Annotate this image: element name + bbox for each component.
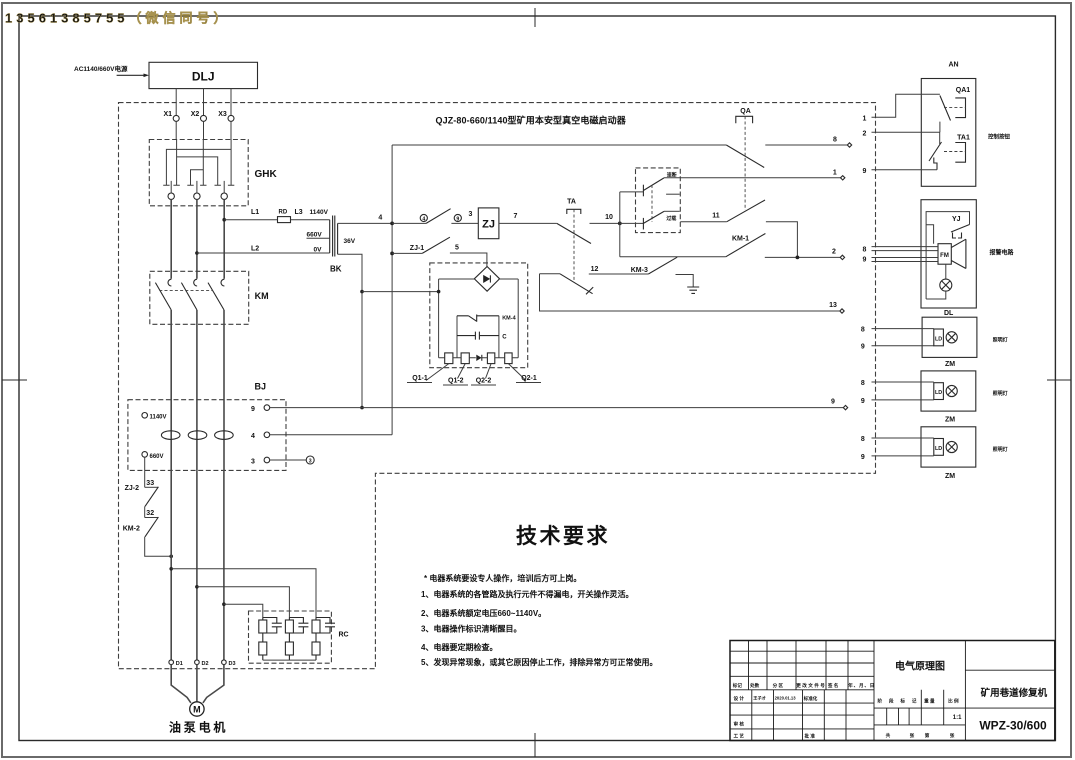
YJ internal loop (926, 212, 969, 299)
phase wire 3 KM to BJ (223, 310, 225, 471)
svg-text:4: 4 (378, 215, 382, 222)
phase wire 2 KM to BJ (196, 310, 198, 471)
RC column 2 (285, 618, 308, 661)
wire X3 to GHK (230, 121, 232, 139)
svg-text:X1: X1 (163, 111, 172, 118)
relay linkage dashed (651, 185, 653, 222)
protector BJ dashed box (128, 400, 286, 471)
centering tick right (1047, 379, 1071, 381)
terminal 8 diamond (847, 143, 851, 147)
node 10 junction (618, 222, 622, 226)
wire 12 (589, 273, 649, 275)
node 33 tick (145, 486, 159, 488)
RC tap 1 (169, 567, 173, 571)
svg-text:1、电器系统的各管路及执行元件不得漏电，开关操作灵活。: 1、电器系统的各管路及执行元件不得漏电，开关操作灵活。 (421, 589, 633, 599)
relay lower contact tick (642, 218, 644, 230)
svg-text:ZM: ZM (945, 361, 955, 368)
svg-text:D3: D3 (229, 661, 236, 667)
CT coil 3 (215, 431, 234, 440)
terminal 2 diamond (840, 255, 844, 259)
svg-text:9: 9 (863, 256, 867, 263)
KM-4 loop verticals (457, 316, 499, 358)
motor feed wires (171, 665, 191, 703)
svg-text:C: C (502, 335, 507, 341)
node L1 junction (222, 218, 226, 222)
rectifier left vertex wiring (439, 279, 475, 358)
svg-text:GHK: GHK (255, 169, 278, 180)
TA lower contact tick (586, 287, 593, 294)
svg-text:BK: BK (330, 265, 342, 274)
ZM2 wire core 8 (872, 437, 934, 439)
start button QA blade on wire 8 (726, 145, 764, 168)
terminal 1 diamond (841, 176, 845, 180)
svg-text:油泵电机: 油泵电机 (169, 720, 228, 735)
KM linkage dashed (159, 289, 212, 291)
terminal X1 (173, 115, 179, 121)
node 2 junction (796, 256, 800, 260)
wire secondary top to node 4 (338, 222, 393, 224)
svg-text:660V: 660V (150, 454, 164, 460)
drawing name cell (874, 641, 1055, 741)
terminal D3 (222, 660, 227, 665)
label Q1-2 with leader (458, 364, 466, 379)
svg-text:8: 8 (861, 380, 865, 387)
svg-text:9: 9 (861, 398, 865, 405)
wire 3 stub (270, 459, 307, 461)
capacitor C (457, 332, 499, 340)
svg-text:13: 13 (829, 302, 837, 309)
svg-text:L2: L2 (251, 246, 259, 253)
svg-text:RC: RC (339, 632, 349, 639)
coil terminal block Q2-2 (487, 353, 494, 364)
svg-text:D2: D2 (202, 661, 209, 667)
svg-text:报警电路: 报警电路 (990, 249, 1015, 257)
stage mark small cells (887, 708, 909, 725)
svg-text:审 核: 审 核 (734, 721, 745, 728)
ZM2 ballast LD (934, 439, 944, 456)
svg-text:M: M (193, 705, 201, 715)
rectifier right vertex wiring (500, 279, 519, 358)
svg-text:AN: AN (949, 62, 959, 69)
svg-text:1:1: 1:1 (953, 715, 962, 721)
lamp to loop bottom (926, 291, 946, 299)
svg-text:王子才: 王子才 (753, 695, 766, 702)
svg-text:12: 12 (591, 266, 599, 273)
DL wire core 8 (872, 328, 934, 330)
GHK moving blades (171, 181, 224, 193)
wire core 1 into AN (872, 94, 940, 117)
svg-text:过载: 过载 (666, 215, 676, 222)
svg-text:工 艺: 工 艺 (734, 733, 745, 740)
ZM1 ballast LD (934, 383, 944, 400)
GHK fixed contact ticks (163, 184, 234, 186)
relay middle stub (666, 193, 680, 195)
ground lead (676, 275, 694, 288)
DL ballast LD (934, 329, 944, 346)
RC tap 2 (195, 585, 199, 589)
terminal X3 (228, 115, 234, 121)
RC column 3 (312, 618, 335, 661)
relay lower blade (643, 211, 664, 223)
label Q1-1 with leader (426, 364, 449, 381)
svg-text:技术要求: 技术要求 (516, 525, 610, 548)
main control vertical bus (391, 145, 393, 435)
svg-text:KM-2: KM-2 (123, 526, 140, 533)
GHK crossover wire b (177, 157, 218, 185)
wire 8 top run (392, 144, 726, 146)
terminal D2 (195, 660, 200, 665)
svg-text:照明灯: 照明灯 (993, 390, 1008, 397)
svg-text:0V: 0V (314, 247, 323, 254)
svg-text:共: 共 (886, 732, 891, 739)
svg-text:9: 9 (861, 344, 865, 351)
svg-text:9: 9 (863, 168, 867, 175)
wire to relay ZJ (451, 222, 478, 224)
title block revision table lines (730, 651, 874, 729)
svg-text:标记: 标记 (732, 682, 743, 689)
svg-text:照明灯: 照明灯 (993, 337, 1008, 344)
svg-text:8: 8 (863, 246, 867, 253)
svg-text:ZJ-2: ZJ-2 (125, 485, 140, 492)
svg-text:KM-3: KM-3 (631, 267, 648, 274)
svg-text:13561385755（微信同号）: 13561385755（微信同号） (5, 11, 231, 26)
relay upper blade (643, 178, 664, 191)
horn cone (951, 239, 966, 268)
node 4 junction (390, 222, 394, 226)
switch blade 4 on control run (392, 222, 426, 224)
node L2 junction (195, 251, 199, 255)
svg-text:D1: D1 (176, 661, 183, 667)
AC supply feed wire with arrow (117, 74, 147, 76)
auxiliary contact KM-4 (457, 315, 499, 322)
circled node 3 (306, 456, 314, 464)
FM to lamp wire (945, 264, 947, 279)
svg-text:L1: L1 (251, 209, 259, 216)
svg-text:* 电器系统要设专人操作，培训后方可上岗。: * 电器系统要设专人操作，培训后方可上岗。 (424, 573, 581, 583)
ZM1 wire core 9 (872, 399, 934, 401)
svg-text:KM-1: KM-1 (732, 236, 749, 243)
phase wire 2 GHK to KM (196, 199, 198, 278)
wire X2 from DLJ (203, 89, 205, 116)
wire 2 to terminal (765, 256, 840, 258)
relay contact ZJ-1 (390, 252, 394, 256)
junction rectifier feed (360, 290, 364, 294)
svg-text:标准化: 标准化 (803, 695, 818, 702)
svg-text:DL: DL (944, 310, 954, 317)
svg-text:4、电器要定期检查。: 4、电器要定期检查。 (421, 642, 497, 652)
svg-text:KM: KM (255, 291, 269, 301)
contactor contact KM-1 wire (620, 256, 726, 258)
wire core 9 double line to FM (872, 258, 939, 262)
svg-text:WPZ-30/600: WPZ-30/600 (979, 719, 1047, 733)
RC column 1 (259, 618, 282, 661)
circled node 4 (420, 214, 427, 221)
CT coil 2 (188, 431, 207, 440)
svg-text:3: 3 (468, 211, 472, 218)
svg-text:660V: 660V (307, 232, 323, 239)
svg-text:ZJ: ZJ (482, 219, 495, 231)
svg-text:签 名: 签 名 (827, 682, 838, 689)
GHK crossover wire a (166, 149, 231, 185)
svg-text:2020.01.13: 2020.01.13 (775, 696, 797, 701)
svg-text:5: 5 (455, 245, 459, 252)
svg-text:Q2-1: Q2-1 (521, 375, 537, 382)
svg-text:11: 11 (712, 213, 720, 220)
KM pole 3 arc (221, 279, 224, 286)
motor M (190, 702, 204, 716)
svg-text:YJ: YJ (952, 216, 961, 223)
svg-text:张: 张 (950, 732, 955, 739)
svg-text:5、发现异常现象，或其它原因停止工作，排除异常方可正常使用。: 5、发现异常现象，或其它原因停止工作，排除异常方可正常使用。 (421, 657, 657, 667)
junction on wire 9 (360, 406, 364, 410)
circled node 9 (454, 214, 461, 221)
svg-text:2: 2 (863, 130, 867, 137)
svg-text:7: 7 (514, 213, 518, 220)
svg-text:批 准: 批 准 (805, 733, 816, 740)
wire 13 from TA lower (540, 274, 840, 311)
phase wire 1 GHK to KM (170, 199, 172, 278)
svg-text:设 计: 设 计 (734, 695, 745, 702)
svg-text:AC1140/660V电源: AC1140/660V电源 (74, 64, 128, 73)
wire X1 to GHK (175, 121, 177, 139)
svg-text:3: 3 (309, 458, 312, 464)
phase wire 3 BJ to D3 (223, 470, 225, 660)
phase wire 2 BJ to D2 (196, 470, 198, 660)
KM blade 2 (181, 283, 197, 310)
rectifier diode symbol (483, 275, 490, 283)
svg-text:重 量: 重 量 (924, 697, 935, 704)
terminal 13 diamond (840, 309, 844, 313)
contactor KM dashed box (150, 271, 249, 324)
svg-text:TA: TA (567, 199, 576, 206)
wire 11 output to node 2 (766, 222, 798, 258)
BJ terminal 3 (264, 457, 270, 463)
terminal 9 diamond (843, 405, 847, 409)
KM blade 3 (208, 283, 224, 310)
YJ step wire to FM (926, 225, 934, 244)
transformer BK primary (329, 220, 331, 253)
svg-text:矿用巷道修复机: 矿用巷道修复机 (981, 687, 1048, 699)
relay ZJ (478, 208, 499, 239)
DL lamp (946, 332, 957, 343)
svg-text:KM-4: KM-4 (502, 316, 516, 322)
stage mark row (921, 690, 943, 725)
svg-text:LD: LD (935, 390, 942, 396)
TA blade upper (wire7 to 10) (557, 223, 591, 243)
svg-text:LD: LD (935, 336, 942, 342)
alarm box YJ (921, 200, 976, 308)
wire X3 from DLJ (230, 89, 232, 116)
snubber RC dashed box (249, 611, 332, 663)
centering tick bottom (534, 733, 536, 757)
KM pole 2 arc (194, 279, 197, 286)
svg-text:电气原理图: 电气原理图 (895, 660, 945, 673)
QA blade on wire 11 (727, 200, 765, 222)
branch vertical at node 10 (619, 192, 621, 257)
isolator switch GHK box (149, 140, 248, 206)
terminal D1 (169, 660, 174, 665)
signal lamp in YJ (940, 279, 952, 291)
wire to node 10 (590, 222, 620, 224)
relay contact ZJ-2 blade (145, 487, 158, 507)
transformer BK core (333, 216, 335, 257)
phase wire 1 KM to BJ (170, 310, 172, 471)
wire secondary bottom (338, 254, 362, 407)
svg-text:1: 1 (863, 116, 867, 123)
wire core 2 into AN (872, 122, 940, 133)
svg-text:RD: RD (279, 210, 288, 216)
svg-text:36V: 36V (344, 238, 356, 245)
wire 8 to terminal (765, 144, 849, 146)
ZM1 wire core 8 (872, 381, 934, 383)
wire core 9 from AN (872, 169, 938, 171)
svg-text:8: 8 (861, 327, 865, 334)
phase wire 3 GHK to KM (223, 199, 225, 278)
svg-text:4: 4 (422, 216, 425, 222)
wire core 8 double line to FM (872, 247, 939, 251)
bottom rail segments (439, 357, 519, 359)
svg-text:比 例: 比 例 (948, 697, 959, 704)
wire 36V to rectifier (362, 291, 439, 293)
wire 5 to rectifier (450, 253, 487, 267)
label Q2-2 with leader (486, 364, 492, 379)
wire 11 (680, 221, 727, 223)
svg-text:8: 8 (861, 436, 865, 443)
svg-text:年、月、日: 年、月、日 (848, 682, 874, 689)
coil terminal block Q1-1 (445, 353, 453, 364)
svg-text:ZM: ZM (945, 416, 955, 423)
series diode on rail (476, 355, 481, 361)
wire into overload relay upper (620, 191, 644, 193)
svg-text:ZJ-1: ZJ-1 (410, 245, 425, 252)
QA linkage dashed (744, 116, 746, 210)
terminal X2 (201, 115, 207, 121)
wire X2 to GHK (203, 121, 205, 139)
vacuum contactor drive dashed box (430, 263, 528, 368)
node 32 tick (145, 517, 159, 519)
coil terminal block Q2-1 (505, 353, 512, 364)
breaker DLJ (149, 62, 258, 88)
relay upper contact tick (642, 185, 644, 197)
svg-text:速断: 速断 (667, 171, 677, 178)
svg-text:4: 4 (251, 433, 255, 440)
coil terminal block Q1-2 (461, 353, 469, 364)
ZM2 wire core 9 (872, 455, 934, 457)
wire 7 (499, 222, 557, 224)
chain tail to phase wire 1 (145, 537, 172, 557)
DL wire core 9 (872, 345, 934, 347)
RC tap 3 (222, 602, 226, 606)
transformer BK secondary (337, 223, 339, 254)
fuse RD (278, 217, 291, 223)
svg-text:9: 9 (831, 399, 835, 406)
svg-text:Q1-2: Q1-2 (448, 378, 464, 385)
GHK phase verticals (177, 140, 232, 186)
svg-text:第: 第 (925, 732, 930, 739)
svg-text:9: 9 (861, 454, 865, 461)
GHK pole circles (168, 193, 174, 199)
TA linkage dashed (573, 209, 575, 280)
GHK crossover wire c (191, 170, 204, 186)
KM-1 blade (726, 234, 766, 257)
KM pole 1 arc (168, 279, 171, 286)
wire L2 to transformer (197, 252, 330, 254)
svg-text:控制按钮: 控制按钮 (988, 133, 1011, 141)
svg-text:DLJ: DLJ (192, 70, 215, 84)
label Q2-1 with leader (508, 364, 526, 381)
wire 4 to control bus (270, 434, 392, 436)
svg-text:32: 32 (146, 510, 154, 517)
wire X1 from DLJ (175, 89, 177, 116)
BJ tap 660V (142, 452, 148, 458)
ZM2 lamp (946, 441, 957, 452)
svg-text:TA1: TA1 (957, 135, 970, 142)
svg-text:9: 9 (251, 406, 255, 413)
svg-text:LD: LD (935, 446, 942, 452)
wire 1 to terminal (664, 177, 841, 179)
svg-text:10: 10 (605, 214, 613, 221)
svg-text:X3: X3 (218, 111, 227, 118)
svg-text:9: 9 (456, 216, 459, 222)
svg-text:Q2-2: Q2-2 (476, 378, 492, 385)
svg-text:1: 1 (833, 170, 837, 177)
wire L3 to transformer (291, 219, 330, 221)
RC bottom rail (263, 659, 316, 661)
svg-text:照明灯: 照明灯 (993, 446, 1008, 453)
title block outer frame (730, 641, 1055, 741)
main enclosure dashed boundary (119, 103, 876, 669)
BJ terminal 9 (264, 405, 270, 411)
svg-text:8: 8 (833, 137, 837, 144)
centering tick top (534, 8, 536, 27)
svg-text:3、电器操作标识清晰醒目。: 3、电器操作标识清晰醒目。 (421, 624, 521, 634)
svg-text:QA: QA (740, 108, 751, 115)
svg-text:BJ: BJ (255, 382, 267, 392)
ground (687, 287, 699, 293)
svg-text:处数: 处数 (749, 682, 760, 689)
voltage select chain from 660V tap (144, 457, 146, 487)
svg-text:1140V: 1140V (150, 415, 167, 421)
protection relay dashed box (636, 168, 681, 233)
svg-text:1140V: 1140V (310, 209, 329, 216)
contactor contact KM-2 blade (145, 517, 158, 537)
svg-text:33: 33 (146, 480, 154, 487)
svg-text:QA1: QA1 (956, 87, 971, 94)
svg-text:3: 3 (251, 458, 255, 465)
svg-text:2: 2 (832, 249, 836, 256)
junction 36V into rectifier (437, 290, 441, 294)
svg-text:ZM: ZM (945, 473, 955, 480)
ZM1 lamp (946, 385, 957, 396)
svg-text:分 区: 分 区 (773, 682, 784, 689)
CT coil 1 (161, 431, 180, 440)
svg-text:张: 张 (910, 732, 915, 739)
svg-text:L3: L3 (295, 209, 303, 216)
wire 9 long run to terminal (270, 407, 844, 409)
bridge rectifier diamond (474, 267, 499, 292)
wire into overload relay lower (620, 222, 644, 224)
phase wire 1 BJ to D1 (170, 470, 172, 660)
svg-text:FM: FM (940, 253, 949, 259)
svg-text:QJZ-80-660/1140型矿用本安型真空电磁启动器: QJZ-80-660/1140型矿用本安型真空电磁启动器 (436, 115, 627, 126)
BJ tap 1140V (142, 413, 148, 419)
wire L1 to fuse (224, 219, 277, 221)
svg-text:Q1-1: Q1-1 (412, 375, 428, 382)
TA blade lower with wire 12 (540, 273, 561, 275)
relay lower apex stub (664, 210, 680, 212)
svg-text:2、电器系统额定电压660~1140V。: 2、电器系统额定电压660~1140V。 (421, 608, 546, 618)
svg-text:更改文件号: 更改文件号 (796, 682, 825, 689)
